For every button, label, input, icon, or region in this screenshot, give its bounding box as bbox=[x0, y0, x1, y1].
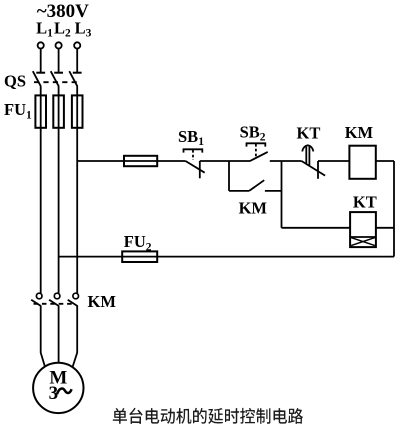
wire node B down to KT coil branch bbox=[281, 161, 283, 228]
wire top control rail from L3 bbox=[77, 160, 124, 162]
svg-text:KT: KT bbox=[297, 124, 321, 143]
contactor KM main contact pole 3 bbox=[68, 293, 79, 306]
motor label 3~ bbox=[49, 383, 72, 404]
switch QS pole 1 bbox=[33, 71, 45, 86]
contact KM auxiliary (NO, seal-in) bbox=[229, 180, 282, 191]
wire KM to motor lead 1 bbox=[41, 306, 46, 368]
fuse FU2 bbox=[122, 251, 157, 262]
fuse FU1 pole 3 bbox=[72, 95, 83, 127]
contactor KM main contact pole 1 bbox=[31, 293, 42, 306]
terminal L3 bbox=[74, 42, 80, 48]
wire QS to FU1 pole 1 bbox=[40, 86, 42, 128]
fuse FU1 pole 2 bbox=[53, 95, 64, 127]
coil KM bbox=[349, 146, 375, 179]
wire fuse to SB1 bbox=[157, 160, 185, 162]
motor M 3-phase bbox=[33, 363, 83, 413]
wire KT coil to right rail bbox=[376, 227, 394, 229]
wire L2 terminal to QS bbox=[58, 49, 60, 73]
pushbutton SB2 (NO) bbox=[247, 143, 268, 161]
wire QS to FU1 pole 2 bbox=[58, 86, 60, 128]
svg-text:KM: KM bbox=[345, 123, 374, 142]
caption 单台电动机的延时控制电路 bbox=[113, 408, 303, 424]
wire phase L3 down to KM contact bbox=[76, 128, 78, 293]
contactor KM main contact pole 2 bbox=[49, 293, 60, 306]
switch QS pole 2 bbox=[51, 71, 63, 86]
wire phase L1 down to KM contact bbox=[40, 128, 42, 293]
svg-text:QS: QS bbox=[4, 72, 26, 91]
wire L3 terminal to QS bbox=[76, 49, 78, 73]
fuse FU1 pole 1 bbox=[35, 95, 46, 127]
terminal L2 bbox=[56, 42, 62, 48]
terminal L1 bbox=[38, 42, 44, 48]
pushbutton SB1 (NC) bbox=[184, 149, 205, 178]
wire KM to motor lead 2 bbox=[58, 306, 60, 365]
wire QS to FU1 pole 3 bbox=[76, 86, 78, 128]
wire KM coil to right rail bbox=[376, 160, 394, 162]
wire phase L2 down to KM contact bbox=[58, 128, 60, 293]
fuse FU (control circuit) bbox=[124, 156, 157, 166]
coil KT (time relay) bbox=[350, 212, 376, 247]
svg-text:KT: KT bbox=[353, 192, 377, 211]
wire node A down to KM branch bbox=[228, 161, 230, 191]
svg-text:KM: KM bbox=[88, 292, 117, 311]
svg-text:KM: KM bbox=[239, 199, 268, 218]
wire KM to motor lead 3 bbox=[72, 306, 77, 368]
wire FU2 to right rail bbox=[157, 256, 394, 258]
wire L1 terminal to QS bbox=[40, 49, 42, 73]
wire node B branch to KT coil bbox=[282, 227, 351, 229]
switch QS linkage dashed bbox=[34, 81, 80, 83]
switch QS pole 3 bbox=[69, 71, 81, 86]
wire right rail down bbox=[393, 161, 395, 257]
contact KT (delayed NC) bbox=[302, 145, 326, 179]
wire bottom control rail from L2 bbox=[59, 256, 123, 258]
contactor KM linkage dashed bbox=[34, 303, 74, 305]
wire KT contact to KM coil bbox=[318, 160, 349, 162]
wire SB2 to KT contact bbox=[270, 160, 302, 162]
wire SB1 to SB2 bbox=[200, 160, 251, 162]
